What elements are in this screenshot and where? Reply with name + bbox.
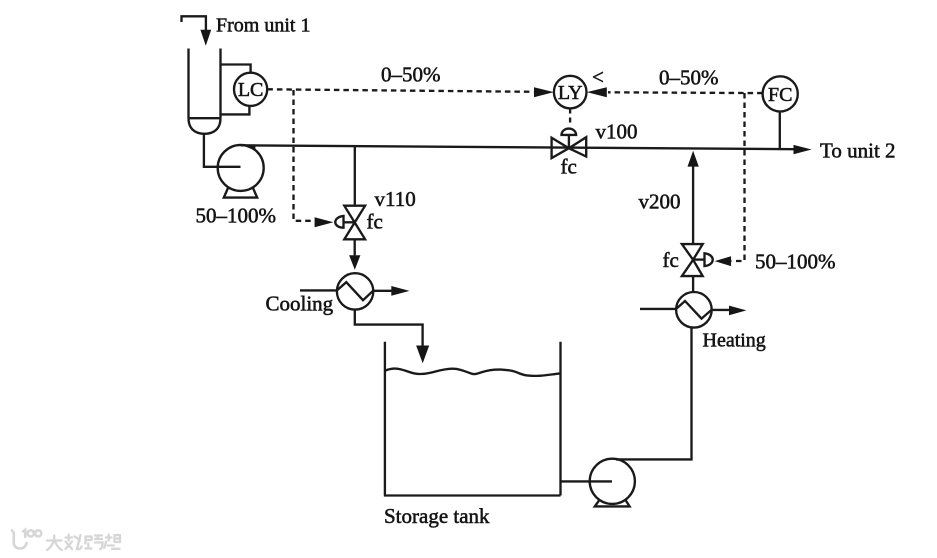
arrow into v200 actuator	[715, 256, 731, 266]
branch wire pipe to v110	[354, 146, 356, 206]
heating outlet wire	[712, 309, 730, 311]
cooling outlet arrow	[391, 286, 409, 296]
FC to LY dashed signal	[608, 91, 763, 94]
svg-text:To unit 2: To unit 2	[820, 139, 896, 163]
pump P1 inlet stub	[218, 166, 241, 168]
v200 to pipe wire	[692, 167, 694, 245]
control valve v200	[682, 244, 703, 260]
svg-text:From unit 1: From unit 1	[216, 15, 310, 37]
pump P2 outlet wire up to heater	[616, 328, 692, 460]
v110 actuator dome	[335, 216, 343, 228]
feed vessel	[189, 49, 221, 119]
cooling outlet wire	[373, 290, 391, 292]
v200 actuator dome	[705, 253, 713, 266]
heating exchanger	[676, 292, 712, 328]
pump P2	[590, 459, 635, 504]
storage tank walls	[384, 342, 561, 496]
level controller LC	[234, 73, 267, 106]
svg-text:v110: v110	[375, 187, 416, 211]
svg-text:LY: LY	[558, 82, 583, 104]
vessel dish bottom	[189, 118, 221, 134]
low selector LY	[554, 76, 587, 109]
v110 actuator stem	[344, 221, 355, 223]
svg-text:fc: fc	[663, 248, 679, 272]
pump P2 base	[595, 499, 630, 506]
arrow into LY right	[587, 87, 607, 97]
svg-text:v200: v200	[639, 190, 681, 214]
watermark logo K100	[12, 530, 41, 549]
svg-text:fc: fc	[561, 155, 577, 179]
LC to v110 dashed signal	[294, 90, 314, 221]
pump P1 base	[224, 187, 257, 198]
FC tap wire to pipe	[779, 112, 781, 150]
flow controller FC	[763, 76, 798, 111]
watermark text 大数跨境	[47, 535, 120, 551]
svg-text:v100: v100	[596, 119, 638, 143]
arrow into v110 actuator	[315, 217, 334, 227]
control valve v110	[344, 206, 365, 223]
svg-text:FC: FC	[768, 84, 792, 106]
heating exchanger coil	[676, 301, 711, 319]
vessel outlet wire to pump	[204, 134, 241, 167]
inlet arrow into vessel	[200, 30, 211, 46]
level tap wires to LC	[221, 65, 251, 115]
heating exchanger inlet wire	[640, 308, 676, 310]
svg-text:LC: LC	[238, 79, 264, 101]
pipe arrow to unit 2	[794, 145, 812, 154]
heater to v200 wire	[692, 276, 694, 292]
svg-text:50–100%: 50–100%	[196, 204, 277, 228]
heating outlet arrow	[729, 306, 746, 316]
LY to v100 dashed signal	[569, 109, 571, 127]
svg-text:Cooling: Cooling	[266, 292, 334, 316]
arrow into pipe from v200	[688, 151, 699, 167]
v110 outlet wire	[354, 239, 356, 255]
control valve v100	[552, 138, 569, 158]
LC to LY dashed signal	[267, 89, 533, 92]
svg-text:0–50%: 0–50%	[381, 63, 441, 87]
arrow into tank	[416, 346, 429, 364]
svg-text:0–50%: 0–50%	[659, 66, 719, 90]
pump outlet tangent wedge	[241, 145, 255, 151]
FC to v200 dashed signal	[732, 93, 745, 261]
svg-text:Heating: Heating	[703, 330, 766, 352]
svg-text:<: <	[592, 65, 604, 89]
cooling exchanger inlet wire	[300, 289, 337, 291]
main product pipe	[241, 145, 794, 149]
arrow into LY left	[534, 87, 554, 97]
v100 actuator dome	[562, 129, 577, 135]
svg-text:fc: fc	[367, 210, 383, 234]
water surface	[385, 369, 561, 376]
cooler to tank wire	[355, 310, 423, 346]
cooling exchanger	[337, 273, 373, 309]
svg-text:Storage tank: Storage tank	[384, 504, 490, 528]
tank outlet wire into pump	[561, 480, 613, 482]
inlet wire from unit 1	[182, 16, 206, 31]
svg-text:50–100%: 50–100%	[755, 250, 836, 274]
v200 actuator stem	[693, 258, 704, 260]
pump P1	[218, 145, 264, 191]
arrow into cooler	[349, 255, 360, 270]
cooling exchanger coil	[337, 282, 373, 300]
